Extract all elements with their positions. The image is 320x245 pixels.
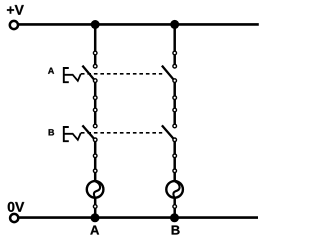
node b1 joint 5: [93, 169, 97, 173]
switch B' bottom contact (branch 2): [173, 138, 177, 142]
wire branch 2 upper segment: [173, 25, 176, 67]
lamp L1 body: [87, 181, 104, 198]
label output B: [172, 226, 180, 235]
node b1 joint 4: [93, 154, 97, 158]
switch A blade (branch 1): [82, 66, 94, 81]
mechanical link B (dashed): [81, 132, 162, 134]
wire branch 2 lamp to bottom rail: [173, 197, 176, 218]
label +V: [7, 5, 24, 15]
node junction bottom branch 2: [170, 213, 179, 222]
wire branch 1 switch B to lamp: [94, 140, 97, 181]
switch A' blade (branch 2): [162, 66, 174, 81]
node junction bottom branch 1: [91, 213, 100, 222]
switch B bottom contact (branch 1): [93, 138, 97, 142]
switch B top contact (branch 1): [93, 124, 97, 128]
node b2 joint 2: [173, 96, 177, 100]
wire bottom rail 0V: [19, 216, 259, 219]
label switch B: [49, 129, 54, 135]
node b1 joint 6 (below lamp): [93, 205, 97, 209]
branch 1 connector nodes: [93, 51, 97, 208]
switch B' top contact (branch 2): [173, 124, 177, 128]
lamp L2 body: [166, 181, 183, 198]
wire branch 1 lamp to bottom rail: [94, 197, 97, 218]
wire branch 2 switch to lamp: [173, 140, 176, 181]
terminal +V: [10, 21, 18, 29]
mechanical link A (dashed): [81, 73, 162, 75]
wire branch 1 between switches A and B: [94, 81, 97, 126]
switch B' blade (branch 2): [162, 125, 174, 139]
label 0V: [8, 202, 24, 212]
branch 2 connector nodes: [173, 51, 177, 208]
node b2 joint 3: [173, 108, 177, 112]
node b2 joint 5: [173, 169, 177, 173]
switch B actuator bracket: [64, 127, 73, 141]
switch A actuator bracket: [64, 68, 73, 82]
wire branch 2 between switches: [173, 81, 176, 126]
node b1 joint 2: [93, 96, 97, 100]
wire branch 1 upper segment: [94, 25, 97, 67]
switch B actuator spring V: [72, 133, 81, 140]
switch A bottom contact (branch 1): [93, 79, 97, 83]
label switch A: [48, 68, 54, 74]
node b1 joint 1: [93, 51, 97, 55]
lamp L1 filament: [94, 181, 100, 196]
switch B blade (branch 1): [82, 125, 94, 139]
switch A actuator spring V: [72, 74, 81, 81]
switch A' bottom contact (branch 2): [173, 79, 177, 83]
node junction top branch 1: [91, 20, 100, 29]
switch A' top contact (branch 2): [173, 64, 177, 68]
node junction top branch 2: [170, 20, 179, 29]
switch A top contact (branch 1): [93, 64, 97, 68]
node b2 joint 6 (below lamp): [173, 205, 177, 209]
terminal 0V: [10, 214, 18, 222]
wire top rail +V: [19, 23, 259, 26]
node b2 joint 4: [173, 154, 177, 158]
node b2 joint 1: [173, 51, 177, 55]
node b1 joint 3: [93, 108, 97, 112]
label output A: [90, 226, 99, 235]
lamp L2 filament: [173, 181, 179, 196]
